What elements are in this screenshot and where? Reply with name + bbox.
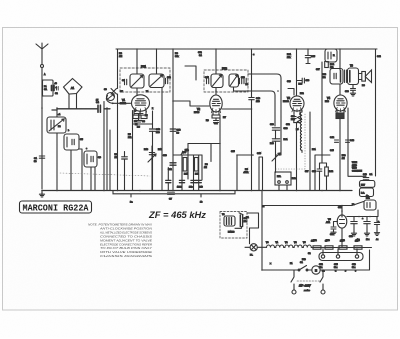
capacitor C7 (168, 192, 175, 194)
wire mains pin L (291, 270, 294, 290)
valve V4 output (334, 95, 347, 111)
capacitor C35 (307, 49, 309, 55)
capacitor C30 (272, 128, 279, 130)
loudspeaker LS (362, 72, 366, 82)
wire rectifier AC feed (262, 202, 364, 206)
coil L5 oscillator (134, 114, 143, 123)
resistor R12 (195, 158, 199, 172)
capacitor C31 (272, 139, 279, 141)
wire V5 cathode down (341, 228, 343, 248)
wire tone columns (276, 118, 282, 172)
wire trimmer branch to chassis (103, 102, 105, 191)
wire HT supply bus (116, 48, 377, 50)
valve V5 rectifier (337, 215, 347, 228)
capacitor C55 (337, 249, 339, 255)
wire L3 to chassis (70, 150, 72, 191)
pilot lamp PL (250, 244, 257, 251)
node mains link dashed (297, 280, 320, 282)
capacitor C13 (170, 129, 176, 131)
wire IFT1 primary feed (136, 49, 138, 74)
wire AF drop (237, 155, 253, 191)
heater V1 (276, 245, 285, 248)
wire chassis bus (42, 190, 352, 192)
wire V3 grid hook (288, 89, 294, 96)
capacitor C16 (251, 49, 253, 97)
resistor R34 (298, 114, 302, 123)
wire IFT2 primary to V2 (215, 88, 217, 96)
capacitor C56 (356, 249, 358, 255)
capacitor C41 cathode (336, 113, 344, 119)
valve V1 frequency changer (132, 95, 150, 111)
wire HT right edge (375, 49, 377, 176)
capacitor C40 (352, 85, 354, 89)
wire trimmer to chassis (117, 94, 119, 191)
wire V1 cathode loop (133, 111, 153, 125)
motor M (312, 266, 320, 274)
extension speaker sockets (360, 181, 375, 188)
wire L4 to chassis (91, 167, 95, 191)
resistor R31 (296, 49, 298, 96)
capacitor C1 (39, 156, 44, 158)
potentiometer arrow volume (272, 153, 280, 161)
coil L9 (309, 112, 311, 191)
ground chassis (41, 191, 43, 195)
capacitor C42 (335, 140, 339, 142)
wire osc to chassis (132, 124, 134, 191)
wire V1 pins (134, 110, 146, 115)
electrolytic block (319, 253, 363, 261)
resistor R54 (339, 246, 347, 249)
padding capacitor C3 with arrow (107, 93, 115, 101)
wire det columns (182, 155, 202, 191)
wire grid bar (52, 109, 110, 110)
capacitor C14 (170, 163, 176, 165)
capacitor C2 (52, 86, 55, 91)
wire bar drop (107, 108, 110, 191)
resistor R11 (183, 158, 187, 172)
wire tuning gang link (60, 173, 150, 176)
wire V3 pins (294, 111, 300, 115)
capacitor C47 (240, 215, 242, 227)
wire HT smoothing rail (347, 210, 378, 217)
wire heater chain start (245, 246, 267, 248)
wire V4 cathode to chassis (339, 119, 341, 191)
wire antenna lead-in (41, 57, 43, 189)
wire L2 feed (56, 108, 58, 117)
resistor R53 (325, 246, 333, 249)
gramophone unit dashed box (220, 212, 247, 239)
capacitor C46 (363, 178, 369, 180)
wire detector link outer (248, 74, 281, 118)
wire AF coupling pair (259, 157, 263, 191)
wire bus drop to V1 (117, 49, 119, 89)
capacitor C43 (346, 140, 350, 142)
capacitor C60 (376, 217, 378, 222)
node junction dots (136, 48, 138, 50)
wire IFT1 primary to V1 anode (136, 88, 138, 95)
wire aux drop (185, 66, 196, 80)
node antenna connector (41, 65, 44, 68)
wire box2 second leg (79, 149, 82, 191)
heater V5 (303, 245, 311, 248)
resistor R44 (325, 167, 329, 176)
resistor R6 column (124, 152, 126, 191)
coil L4 padder (84, 151, 97, 167)
wire grid stopper column (321, 62, 323, 163)
antenna A (36, 43, 48, 57)
switch S1 (299, 266, 307, 271)
resistor R4 cathode (133, 115, 139, 118)
capacitor C4 (98, 105, 100, 112)
wire V2 pins (213, 111, 219, 115)
wire osc grid link (173, 101, 209, 106)
wire V4 pins (337, 111, 344, 114)
pick-up head (224, 216, 235, 226)
wire dropper chain (311, 247, 371, 249)
wire V2 cathode to chassis (216, 118, 220, 191)
valve V2 IF amplifier (210, 95, 222, 112)
wire V2 anode out (222, 108, 252, 110)
wire pickup link (235, 227, 242, 229)
resistor R52 (313, 246, 321, 249)
resistor R50 box (325, 49, 337, 62)
wire T3 to V4 anode (339, 84, 341, 95)
transformer IFT1 (120, 68, 170, 92)
wire chassis parallel run (113, 191, 235, 194)
wire IFT2 secondary out (234, 87, 276, 126)
wire screen feed (172, 49, 174, 191)
capacitor C33 (297, 80, 303, 82)
capacitor C58 (366, 217, 368, 221)
wire det drops (188, 144, 211, 162)
loop aerial plug A1 (64, 79, 83, 95)
transformer IFT2 (204, 70, 248, 92)
wire AVC dotted (276, 114, 305, 169)
wire tone feed (269, 86, 271, 88)
wire grid lead (113, 102, 131, 104)
trimmer CT1 (111, 89, 117, 95)
capacitor C17 row (179, 180, 184, 182)
coil L2 tuned circuit (47, 117, 66, 133)
capacitor C32 (292, 117, 297, 119)
wire tone link (315, 155, 330, 191)
wire grid return (348, 108, 366, 176)
wire V3 cathode chain (294, 123, 300, 191)
capacitor C10 (152, 124, 154, 128)
resistor R51 box (364, 200, 376, 210)
capacitor C59 (334, 222, 338, 227)
wire PU pins to chassis (279, 185, 287, 191)
resistor R24 (325, 62, 329, 68)
wire grid hook (106, 96, 113, 104)
capacitor C21b (214, 121, 219, 123)
wire mains run (262, 250, 370, 270)
wire IFT1 secondary feed (156, 49, 158, 74)
wire mains column (261, 191, 263, 271)
wire det top rail (188, 143, 220, 145)
wire mains pin N (320, 270, 323, 290)
node footnote block (88, 223, 153, 259)
coil L3 oscillator tuned (64, 134, 79, 150)
wire IFT2 primary feed (215, 49, 217, 74)
wire IFT1 secondary out (161, 88, 163, 191)
heater V4 (294, 245, 303, 248)
resistor R55 (354, 246, 362, 249)
wire loop aerial legs (69, 94, 77, 109)
coil L1 aerial coupling (43, 80, 54, 96)
capacitor C57 (353, 217, 355, 221)
wire gram feed (247, 213, 259, 244)
wire det mid rail (173, 154, 202, 156)
valve V3 detector AF (290, 96, 304, 111)
capacitor C50 (317, 169, 322, 171)
potentiometer R10 (151, 146, 153, 191)
capacitor C54 (322, 249, 324, 255)
heater V2 (285, 245, 294, 248)
resistor R7 (212, 115, 220, 118)
node title box MARCONI RG22A (20, 201, 92, 213)
heater V3 (267, 245, 276, 248)
pick-up sockets PU (275, 172, 291, 185)
wire V5 anode feed (341, 206, 343, 216)
wire T3 primary feed (339, 49, 341, 70)
wire L2 to chassis (56, 133, 58, 191)
